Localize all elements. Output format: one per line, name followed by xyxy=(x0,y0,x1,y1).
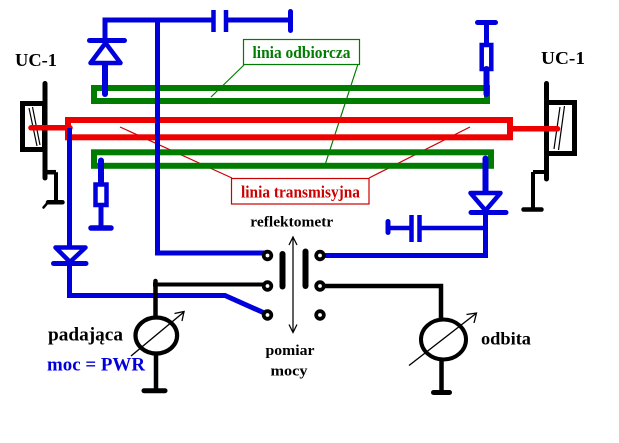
wire: black meter lead vertical (over blue wire) xyxy=(153,281,158,319)
switch bar right xyxy=(303,252,309,287)
label box linia odbiorcza xyxy=(244,40,360,65)
transmission line left feed into connector xyxy=(31,125,70,131)
svg-text:pomiar: pomiar xyxy=(266,343,315,359)
svg-text:linia transmisyjna: linia transmisyjna xyxy=(241,183,360,202)
capacitor C1 plates xyxy=(211,10,216,32)
svg-text:reflektometr: reflektometr xyxy=(250,215,333,231)
pointer line from linia odbiorcza label to upper line xyxy=(211,65,244,97)
terminal bar right of capacitor xyxy=(288,12,293,31)
pointer line from linia transmisyjna label right branch xyxy=(369,127,470,178)
switch travel double arrow xyxy=(289,237,297,333)
wire: top horizontal left segment xyxy=(105,20,212,40)
connector UC-1 right: panel line xyxy=(544,84,549,180)
stub + resistor R1 bottom left with terminal xyxy=(91,161,111,229)
svg-text:moc = PWR: moc = PWR xyxy=(47,356,146,376)
meter right (odbita) xyxy=(409,313,477,393)
svg-text:odbita: odbita xyxy=(481,329,531,349)
switch bar left xyxy=(280,254,286,287)
svg-text:UC-1: UC-1 xyxy=(541,48,585,68)
wire: black from switch middle-right contact to right meter xyxy=(324,286,441,320)
wire: long vertical from top junction down to switch xyxy=(158,20,266,253)
svg-text:mocy: mocy xyxy=(271,364,309,380)
connector UC-1 left: panel line xyxy=(43,84,48,179)
diode D1 top-left (pointing up) xyxy=(90,41,125,95)
svg-text:padająca: padająca xyxy=(48,326,123,346)
resistor R2 top right with terminal xyxy=(478,23,496,95)
transmission line (red ring) xyxy=(68,120,510,137)
label box linia transmisyjna xyxy=(232,179,370,205)
pointer line from linia odbiorcza label to lower line xyxy=(325,64,358,165)
receiving line lower coupled section (green ring) xyxy=(94,152,491,166)
capacitor C2 branch right xyxy=(388,215,486,242)
svg-text:linia odbiorcza: linia odbiorcza xyxy=(253,43,351,62)
connector UC-1 right: hatch lines xyxy=(554,107,560,149)
meter left (padajaca) xyxy=(131,312,185,391)
wire: top horizontal right segment xyxy=(228,18,289,23)
transmission line right feed into connector xyxy=(511,126,558,132)
diode D3 left (from transmission line tap) xyxy=(54,128,266,314)
switch contact dots xyxy=(264,252,324,319)
stub + diode D4 bottom right xyxy=(325,159,506,256)
connector UC-1 right: body box xyxy=(547,103,575,154)
wire: black from meter junction to switch middle-left contact xyxy=(153,283,264,287)
connector UC-1 left: hatch lines xyxy=(29,108,37,146)
pointer line from linia transmisyjna label left branch xyxy=(120,127,232,178)
ground right connector xyxy=(524,172,547,210)
svg-text:UC-1: UC-1 xyxy=(15,50,57,70)
receiving line upper coupled section (green ring) xyxy=(94,88,487,101)
connector UC-1 left: body box xyxy=(23,104,45,150)
ground left connector xyxy=(44,172,63,207)
